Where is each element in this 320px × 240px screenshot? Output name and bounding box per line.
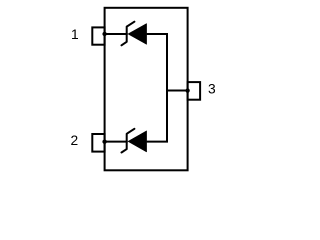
zener D1 cathode bar xyxy=(122,22,135,46)
pin 2 terminal box xyxy=(92,134,104,152)
zener D2 anode triangle xyxy=(128,131,147,152)
zener D2 cathode bar xyxy=(122,129,135,153)
junction dot pin 1 xyxy=(102,32,106,36)
pin 1 terminal box xyxy=(92,27,104,44)
junction dot pin 2 xyxy=(102,140,106,144)
svg-text:3: 3 xyxy=(208,82,216,97)
pin 3 terminal box xyxy=(188,82,201,100)
package outline xyxy=(105,8,188,171)
svg-text:2: 2 xyxy=(71,133,79,148)
wire pin1 to D1 cathode xyxy=(105,33,128,35)
junction dot pin 3 xyxy=(185,88,189,92)
wire D2 anode to node xyxy=(147,141,168,143)
node wire vertical xyxy=(166,34,168,142)
wire D1 anode to node xyxy=(147,33,168,35)
wire pin2 to D2 cathode xyxy=(105,141,128,143)
svg-text:1: 1 xyxy=(71,27,79,42)
zener D1 anode triangle xyxy=(128,24,147,45)
wire node to pin 3 xyxy=(167,90,188,92)
